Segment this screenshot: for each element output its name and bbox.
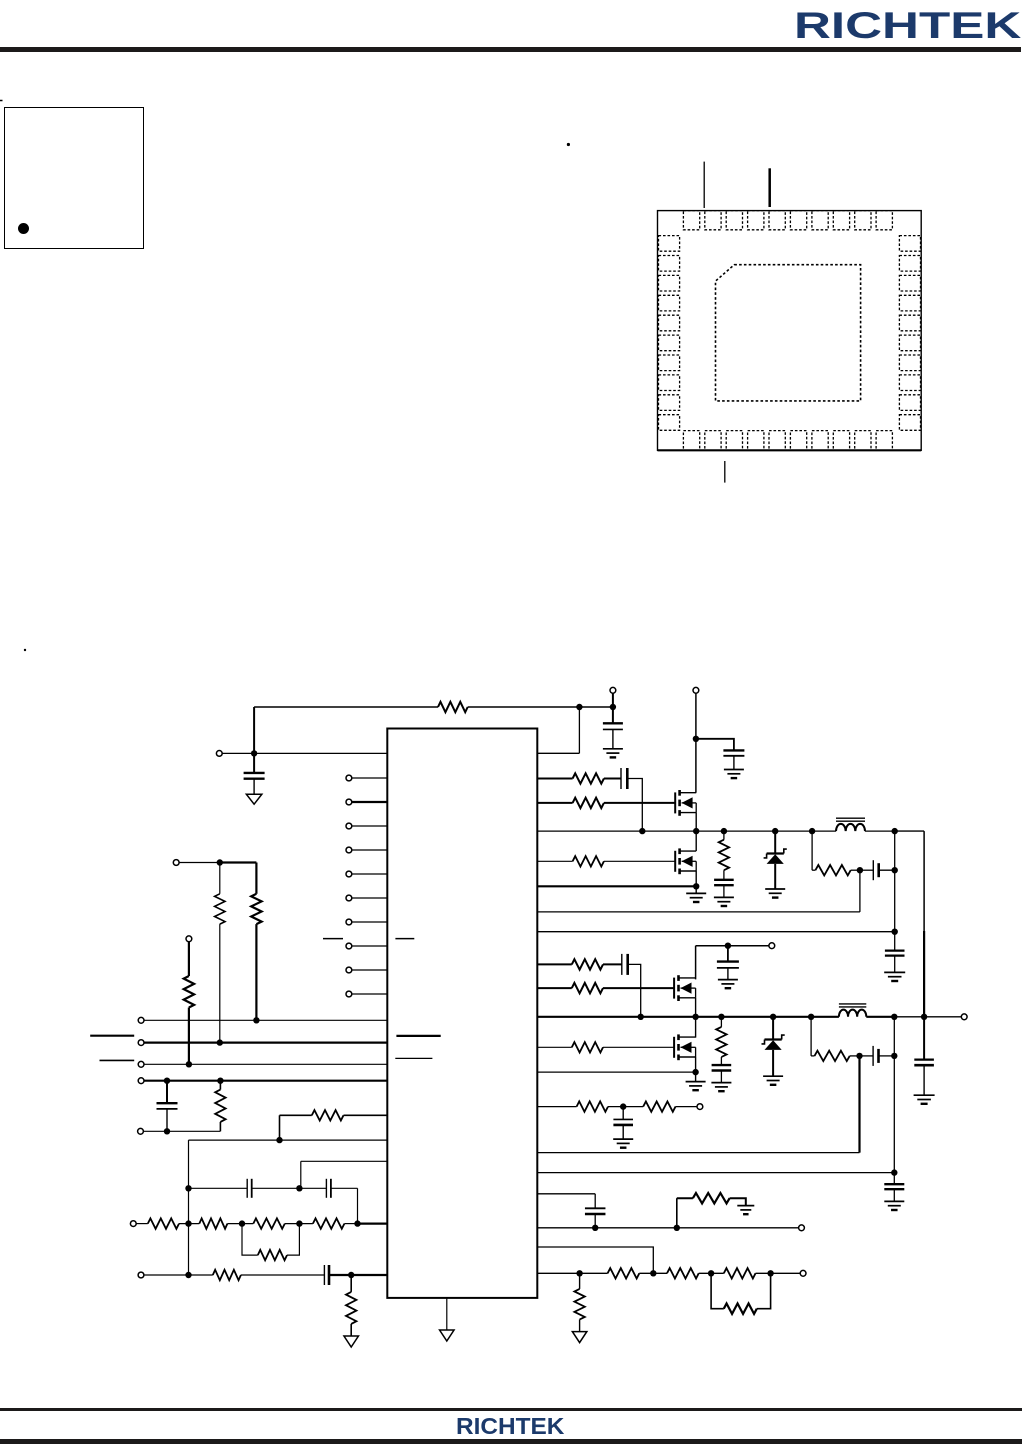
IC left pin 9 stub and terminal circle bbox=[346, 967, 352, 973]
node SW1 snubber junction bbox=[721, 828, 727, 834]
diode D1 (schottky ch1) bbox=[774, 831, 776, 853]
ground (triangle) below IC bbox=[440, 1330, 455, 1341]
terminal row B bbox=[138, 1040, 144, 1046]
wire VIN2 row bbox=[696, 945, 769, 947]
wire G2-G3 bbox=[227, 1223, 253, 1225]
node C-CS1 right junction bbox=[892, 867, 898, 873]
capacitor C-IN1 bypass bbox=[723, 749, 744, 751]
wire comp row F right bbox=[331, 1187, 358, 1189]
wire VOUT2 to terminal bbox=[894, 1016, 961, 1018]
wire BOOT1 from IC bbox=[537, 778, 572, 780]
wire comp line 3 bbox=[301, 1160, 388, 1162]
node CS2 junction bbox=[856, 1053, 862, 1059]
wire VOUT2 vertical bbox=[893, 1017, 895, 1184]
resistor R-UG1 bbox=[573, 798, 604, 808]
ground below C-snub2 bbox=[711, 1082, 731, 1084]
terminal VIN (filter) bbox=[610, 687, 616, 693]
wire VCC riser bbox=[253, 707, 255, 753]
wire UGATE1 from IC bbox=[537, 802, 572, 804]
terminal row A bbox=[138, 1017, 144, 1023]
wire MODE line bbox=[537, 1247, 653, 1273]
wire comp row F left bbox=[189, 1187, 248, 1189]
capacitor C-OUT2 on VOUT bus bbox=[923, 1017, 925, 1060]
IC left pin 7 stub and terminal circle bbox=[346, 919, 352, 925]
wire EN row thick bbox=[220, 861, 257, 863]
wire DCR1 left drop bbox=[811, 831, 813, 870]
capacitor C-H bbox=[323, 1265, 325, 1285]
RICHTEK header logo bbox=[794, 5, 1021, 47]
node comp F mid junction bbox=[296, 1185, 302, 1191]
wire row A to IC bbox=[144, 1019, 387, 1021]
ground below C-OUT2 bbox=[914, 1094, 935, 1096]
node SW1 diode junction bbox=[772, 828, 778, 834]
node R-EN1 to row A bbox=[253, 1017, 259, 1023]
wire RT row left bbox=[537, 1272, 607, 1274]
IC left pin 8 stub and terminal circle bbox=[346, 943, 352, 949]
wire C-BOOT1 to SW1 bbox=[627, 779, 642, 832]
wire SS row bbox=[537, 1227, 798, 1229]
ground (triangle) below C-VCC bbox=[246, 794, 262, 804]
IC left pin 1 stub and terminal circle bbox=[346, 775, 352, 781]
ground below Q4 source bbox=[695, 1072, 697, 1082]
node R-EN2 to row B bbox=[217, 1039, 223, 1045]
pin label dash left 1 bbox=[90, 1035, 134, 1037]
package bottom leader line bbox=[724, 461, 726, 483]
wire Q2 source down bbox=[695, 871, 697, 886]
stray period mark 2 bbox=[24, 649, 26, 651]
IC left pin 5 stub and terminal circle bbox=[346, 871, 352, 877]
resistor R-G-parallel bbox=[242, 1224, 258, 1256]
node L1 output junction bbox=[892, 828, 898, 834]
resistor R-OCP1 bbox=[577, 1101, 608, 1111]
wire Q1 source to SW1 bbox=[695, 813, 697, 832]
wire row B to IC bbox=[144, 1041, 387, 1043]
terminal EN master bbox=[173, 860, 179, 866]
node row H junction 1 bbox=[185, 1272, 191, 1278]
terminal OCSET bbox=[697, 1104, 703, 1110]
node FB2 junction bbox=[891, 1169, 897, 1175]
wire comp drop 1 bbox=[279, 1115, 281, 1140]
node boot2-SW junction bbox=[638, 1014, 644, 1020]
wire Q4 drain to SW2 bbox=[695, 1017, 697, 1038]
wire R-comp1 to IC bbox=[344, 1114, 388, 1116]
stray tick top-left bbox=[0, 100, 3, 102]
resistor R-G3 bbox=[253, 1218, 284, 1228]
transistor Q3 (high-side NMOS ch2) bbox=[673, 978, 675, 999]
resistor R-BOOT2 bbox=[572, 959, 603, 969]
ground below C-OUT1 bbox=[884, 971, 905, 973]
terminal EN2 bbox=[186, 936, 192, 942]
wire G1-G2 bbox=[179, 1223, 199, 1225]
wire VOUT bus from L1 bbox=[895, 830, 924, 832]
IC package outline (WQFN top view) bbox=[658, 211, 922, 451]
stray period mark 1 bbox=[567, 143, 570, 146]
wire LGATE1 from IC bbox=[537, 860, 572, 862]
capacitor C-comp1 bbox=[246, 1179, 248, 1198]
resistor R-UG2 bbox=[572, 983, 603, 993]
node row D res junction bbox=[217, 1078, 223, 1084]
node VOUT bus junction bbox=[921, 1014, 927, 1020]
resistor R-G1 bbox=[148, 1218, 179, 1228]
wire R-OCP1 to R-OCP2 bbox=[608, 1106, 643, 1108]
node row H junction 2 bbox=[348, 1272, 354, 1278]
wire VIN bypass branch bbox=[696, 739, 734, 751]
resistor R-OCP2 bbox=[643, 1101, 675, 1111]
wire Q4 source down bbox=[695, 1057, 697, 1072]
node FB1 junction bbox=[892, 929, 898, 935]
ground below R-SS bbox=[737, 1205, 754, 1207]
wire CS2 sense line bbox=[858, 1056, 860, 1153]
wire SW2 node bbox=[537, 1016, 839, 1018]
package pin leader line right bbox=[768, 168, 771, 207]
IC left pin 6 stub and terminal circle bbox=[346, 895, 352, 901]
resistor R-VCC on top rail bbox=[438, 702, 468, 712]
wire VIN terminal drop bbox=[612, 693, 614, 723]
wire row C to IC bbox=[144, 1063, 387, 1065]
wire G3-G4 bbox=[285, 1223, 313, 1225]
capacitor C-snub1 bbox=[714, 879, 734, 881]
resistor R-CS1 bbox=[812, 869, 815, 871]
wire VCC terminal to IC bbox=[222, 752, 387, 754]
resistor R-RT3 bbox=[724, 1268, 756, 1278]
wire top rail left segment bbox=[254, 706, 438, 708]
node Q1/Q2 SW junction bbox=[693, 828, 699, 834]
package top pad row (pins 31-40) bbox=[683, 211, 699, 230]
node comp junction 2 bbox=[276, 1137, 282, 1143]
capacitor C-BOOT1 bbox=[620, 768, 622, 789]
terminal row H bbox=[138, 1272, 144, 1278]
wire SS cap line from IC bbox=[537, 1193, 595, 1195]
node boot1-SW junction bbox=[639, 828, 645, 834]
node PGND1 junction bbox=[693, 883, 699, 889]
IC left pin 10 stub and terminal circle bbox=[346, 991, 352, 997]
package left pad column (pins 1-10) bbox=[659, 236, 680, 252]
wire Q3 drain drop bbox=[695, 946, 697, 980]
node SW1-L1 left junction bbox=[809, 828, 815, 834]
wire VIN power vertical bbox=[695, 693, 697, 793]
header rule bbox=[0, 47, 1021, 52]
wire Q3 source to SW2 bbox=[695, 998, 697, 1017]
diode D2 (schottky ch2) bbox=[772, 1017, 774, 1040]
node CS1 junction bbox=[857, 867, 863, 873]
wire R-BOOT1 to C-BOOT1 bbox=[604, 778, 621, 780]
resistor R-BOOT1 bbox=[573, 773, 604, 783]
ground (triangle) below R-H-gnd bbox=[344, 1336, 359, 1347]
wire G4 to IC bbox=[344, 1223, 357, 1225]
resistor R-RT-gnd bbox=[579, 1273, 581, 1289]
wire SW1 node bbox=[537, 830, 836, 832]
transistor Q1 (high-side NMOS ch1) bbox=[674, 792, 676, 813]
resistor R-RT2 bbox=[667, 1268, 699, 1278]
capacitor C-FB2 bbox=[884, 1183, 904, 1185]
wire top rail right segment bbox=[468, 706, 613, 708]
IC left pin 3 stub and terminal circle bbox=[346, 823, 352, 829]
node SS resistor junction bbox=[674, 1225, 680, 1231]
inductor L2 with core bars bbox=[839, 1010, 866, 1017]
wire row H to IC bbox=[329, 1274, 387, 1276]
inductor L1 with core bars bbox=[836, 824, 865, 831]
node Q3/Q4 SW junction bbox=[692, 1014, 698, 1020]
wire comp row F mid bbox=[252, 1187, 327, 1189]
wire R-UG2 to Q3 gate bbox=[603, 987, 674, 989]
resistor R-G4 bbox=[313, 1218, 345, 1228]
node SS cap junction bbox=[592, 1225, 598, 1231]
marking box pin1 dot bbox=[18, 223, 29, 234]
ground below Q2 source bbox=[695, 886, 697, 893]
ground below C-VIN filter bbox=[603, 748, 623, 750]
IC left pin 4 stub and terminal circle bbox=[346, 847, 352, 853]
node top rail to VCC pin bbox=[576, 704, 582, 710]
package exposed pad (pin 41) with chamfer bbox=[716, 265, 861, 401]
resistor R-snub2 bbox=[720, 1017, 722, 1027]
node VCC junction bbox=[251, 750, 257, 756]
node RT junction 3 bbox=[708, 1270, 714, 1276]
resistor R-rowD bbox=[219, 1081, 221, 1090]
IC U1 body bbox=[387, 729, 537, 1298]
wire RT row mid2 bbox=[699, 1272, 724, 1274]
capacitor C-VIN filter bbox=[603, 722, 623, 724]
wire LGATE2 from IC bbox=[537, 1046, 572, 1048]
RICHTEK footer logo bbox=[456, 1413, 564, 1440]
wire BOOT2 from IC bbox=[537, 963, 572, 965]
node RT junction 2 bbox=[650, 1270, 656, 1276]
capacitor C-comp2 bbox=[325, 1179, 327, 1198]
package pin leader line left bbox=[703, 162, 705, 208]
wire IC GND lead bbox=[446, 1298, 448, 1330]
transistor Q4 (low-side NMOS ch2) bbox=[673, 1037, 675, 1058]
resistor R-H-gnd bbox=[350, 1275, 352, 1292]
terminal VIN (power ch2) bbox=[769, 943, 775, 949]
resistor R-LG1 bbox=[573, 856, 604, 866]
wire PGND1 from IC bbox=[537, 885, 696, 887]
node comp G junction 3 bbox=[296, 1220, 302, 1226]
ground below C-OCP bbox=[613, 1138, 633, 1140]
node VIN2 bypass junction bbox=[725, 943, 731, 949]
wire comp left vertical bbox=[188, 1140, 190, 1275]
node RT gnd junction bbox=[576, 1270, 582, 1276]
resistor R-EN3 bbox=[188, 942, 190, 976]
node comp F left junction bbox=[185, 1185, 191, 1191]
wire EN row bbox=[179, 862, 220, 864]
wire row H lead bbox=[144, 1274, 213, 1276]
wire row E bbox=[143, 1130, 220, 1132]
resistor R-snub1 bbox=[723, 831, 725, 840]
ground (triangle) below R-RT-gnd bbox=[572, 1332, 587, 1343]
node SW2 diode junction bbox=[770, 1014, 776, 1020]
wire R-UG1 to Q1 gate bbox=[604, 802, 675, 804]
wire UGATE2 from IC bbox=[537, 987, 572, 989]
resistor R-RT-parallel bbox=[711, 1273, 724, 1308]
node VIN filter junction bbox=[610, 704, 616, 710]
marking information box bbox=[4, 107, 144, 249]
node C-CS2 right junction bbox=[891, 1053, 897, 1059]
wire Q2 drain to SW1 bbox=[695, 831, 697, 851]
footer rule bbox=[0, 1408, 1022, 1411]
capacitor C-VCC bbox=[253, 753, 255, 773]
terminal VIN (power ch1) bbox=[693, 687, 699, 693]
wire FB2 sense line bbox=[537, 1172, 894, 1174]
wire comp line 1 bbox=[280, 1114, 312, 1116]
pin label dash left 2 bbox=[100, 1059, 135, 1061]
wire comp drop 3 bbox=[300, 1161, 302, 1188]
terminal row E bbox=[138, 1128, 144, 1134]
wire CS1 sense line bbox=[859, 870, 861, 912]
node PGND2 junction bbox=[692, 1069, 698, 1075]
wire comp line 2 bbox=[189, 1139, 388, 1141]
wire VOUT1 vertical bbox=[894, 831, 896, 951]
node comp G junction 2 bbox=[239, 1220, 245, 1226]
node comp G junction 1 bbox=[185, 1220, 191, 1226]
resistor R-G2 bbox=[199, 1218, 227, 1228]
node row D cap junction bbox=[164, 1078, 170, 1084]
transistor Q2 (low-side NMOS ch1) bbox=[674, 851, 676, 872]
terminal row C bbox=[138, 1061, 144, 1067]
wire C-BOOT2 to SW2 bbox=[628, 964, 641, 1016]
wire row D to IC bbox=[144, 1080, 387, 1082]
ground below D2 bbox=[763, 1075, 783, 1077]
node EN divider junction bbox=[217, 859, 223, 865]
resistor R-LG2 bbox=[572, 1042, 603, 1052]
capacitor C-snub2 bbox=[712, 1064, 732, 1066]
pin label dash inside IC 2 bbox=[395, 1057, 432, 1059]
ground below D1 bbox=[765, 888, 785, 890]
ground below C-snub1 bbox=[714, 896, 734, 898]
wire DCR2 left drop bbox=[810, 1017, 812, 1056]
node RT junction 4 bbox=[767, 1270, 773, 1276]
terminal comp G bbox=[130, 1221, 136, 1227]
wire R-OCP2 to terminal bbox=[676, 1106, 698, 1108]
wire R-LG1 to Q2 gate bbox=[604, 860, 675, 862]
resistor R-H1 bbox=[213, 1270, 241, 1280]
package right pad column (pins 21-30) bbox=[899, 236, 920, 252]
terminal VOUT bbox=[961, 1014, 967, 1020]
wire RT row mid1 bbox=[639, 1272, 667, 1274]
node comp G junction 4 bbox=[354, 1220, 360, 1226]
terminal RT/SYNC bbox=[800, 1270, 806, 1276]
node L2 output junction bbox=[891, 1014, 897, 1020]
node SW2-L2 left junction bbox=[808, 1014, 814, 1020]
capacitor C-OUT1 bbox=[885, 949, 905, 951]
wire R-LG2 to Q4 gate bbox=[603, 1046, 674, 1048]
wire FB1 sense line bbox=[537, 931, 894, 933]
ground below C-IN2 bbox=[718, 979, 738, 981]
ground below C-FB2 bbox=[884, 1200, 904, 1202]
wire comp row G lead bbox=[136, 1223, 148, 1225]
wire R-BOOT2 to C-BOOT2 bbox=[603, 963, 622, 965]
node row E junction bbox=[164, 1128, 170, 1134]
IC left pin 2 stub and terminal circle bbox=[346, 799, 352, 805]
node VIN bypass junction bbox=[693, 736, 699, 742]
node OCP junction bbox=[620, 1103, 626, 1109]
capacitor C-IN2 bypass bbox=[727, 946, 729, 962]
resistor R-RT1 bbox=[608, 1268, 640, 1278]
package bottom pad row (pins 11-20) bbox=[683, 431, 699, 451]
pin name overbar left of pin 8 bbox=[323, 938, 343, 940]
resistor R-EN2 bbox=[219, 863, 221, 894]
footer bottom bar bbox=[0, 1439, 1022, 1444]
ground below C-IN1 bbox=[724, 769, 744, 771]
wire PGND2 from IC bbox=[537, 1071, 695, 1073]
wire VCC pin drop bbox=[578, 707, 580, 753]
node R-EN3 to row C bbox=[186, 1061, 192, 1067]
capacitor C-OCP bbox=[622, 1107, 624, 1120]
pin name overbar inside IC near pin 8 bbox=[395, 938, 414, 940]
resistor R-EN1 bbox=[255, 863, 257, 894]
terminal row D bbox=[138, 1078, 144, 1084]
capacitor C-SS bbox=[594, 1194, 596, 1209]
terminal VCC (left) bbox=[216, 751, 222, 757]
capacitor C-CS2 bbox=[860, 1055, 874, 1057]
wire OCP row from IC bbox=[537, 1106, 576, 1108]
capacitor C-BOOT2 bbox=[621, 954, 623, 975]
resistor R-CS2 bbox=[811, 1055, 814, 1057]
capacitor C-CS1 bbox=[860, 869, 873, 871]
node SW2 snubber junction bbox=[718, 1014, 724, 1020]
resistor R-SS discharge bbox=[676, 1198, 678, 1228]
capacitor C-rowD bbox=[166, 1081, 168, 1104]
wire RT row right bbox=[756, 1272, 801, 1274]
resistor R-comp1 bbox=[312, 1110, 344, 1120]
pin label dash inside IC 1 bbox=[396, 1035, 440, 1037]
terminal SS bbox=[799, 1225, 805, 1231]
wire row H mid bbox=[241, 1274, 325, 1276]
